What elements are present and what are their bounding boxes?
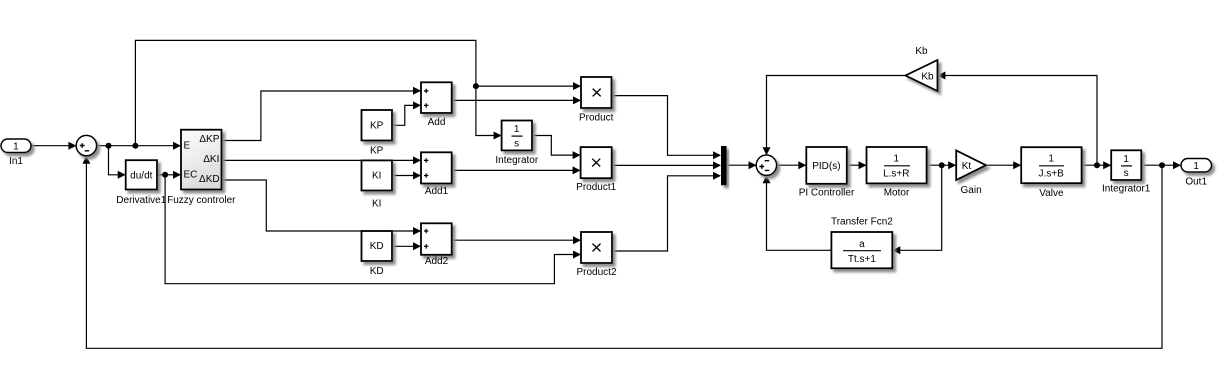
wire Sum out / error signal to E	[96, 145, 180, 147]
arrow into Product1 input2	[573, 166, 581, 174]
svg-text:KI: KI	[372, 171, 381, 182]
arrow into Fuzzy EC	[173, 171, 181, 179]
block PI Controller PID(s)	[799, 147, 855, 199]
svg-text:KD: KD	[370, 266, 384, 277]
wire KD out to Add2 second input	[392, 245, 420, 247]
svg-text:E: E	[184, 141, 191, 152]
node integrator/product branch	[473, 83, 479, 89]
svg-text:Product2: Product2	[576, 267, 616, 278]
arrow into Integrator	[494, 132, 502, 140]
svg-text:Tt.s+1: Tt.s+1	[848, 254, 877, 265]
wire Out1 feedback bottom to Sum1	[86, 157, 1162, 348]
outport Out1	[1181, 159, 1212, 188]
wire KP out to Add second input	[392, 105, 420, 125]
node after Motor	[939, 162, 945, 168]
arrow into Motor	[859, 161, 867, 169]
arrow into Integrator1	[1103, 161, 1111, 169]
wire Kb out left and down to Sum2 top	[767, 76, 906, 155]
arrow into Sum2 top	[763, 147, 771, 155]
svg-text:PID(s): PID(s)	[812, 161, 840, 172]
svg-text:1: 1	[13, 141, 19, 152]
constant block KI	[362, 160, 393, 209]
gain triangle Kt	[956, 150, 986, 195]
svg-text:KD: KD	[370, 241, 384, 252]
wire Derivative1 out to EC	[157, 174, 180, 176]
wire Mux out to Sum2	[727, 164, 756, 166]
arrow into Fuzzy E	[173, 142, 181, 150]
arrow into Product2 input2	[573, 251, 581, 259]
wire Integrator1 out to Out1	[1141, 164, 1180, 166]
arrow into Gain	[948, 161, 956, 169]
arrow into Product input2	[573, 96, 581, 104]
svg-text:Out1: Out1	[1185, 177, 1207, 188]
svg-text:1: 1	[1123, 154, 1129, 165]
block Valve 1/(J.s+B)	[1021, 147, 1081, 199]
wire error branch up over top to Integrator	[135, 40, 500, 145]
arrow into PI Controller	[798, 161, 806, 169]
constant block KD	[362, 231, 393, 277]
wire derivative branch down along bottom to Product2 second input	[165, 175, 580, 284]
svg-text:KI: KI	[372, 198, 381, 209]
arrow into Product1 input1	[573, 151, 581, 159]
svg-text:J.s+B: J.s+B	[1039, 169, 1065, 180]
svg-text:ΔKD: ΔKD	[199, 174, 220, 185]
wire In1 to Sum	[31, 145, 75, 147]
wire node to Product first input	[476, 85, 580, 87]
svg-text:EC: EC	[184, 170, 198, 181]
sum junction Sum1	[76, 135, 96, 155]
svg-text:1: 1	[1048, 154, 1054, 165]
mux bar	[721, 146, 727, 185]
gain triangle Kb (pointing left)	[906, 46, 938, 91]
arrow into Mux input1	[713, 151, 721, 159]
svg-text:Product1: Product1	[576, 182, 616, 193]
wire dKD to Add2 first input	[222, 180, 421, 231]
wire Integrator out to Product1 first input	[532, 136, 580, 156]
svg-text:KP: KP	[370, 120, 384, 131]
svg-text:Valve: Valve	[1039, 188, 1064, 199]
svg-text:du/dt: du/dt	[130, 170, 152, 181]
svg-text:Fuzzy controler: Fuzzy controler	[167, 195, 236, 206]
wire Product1 out to Mux input 2	[612, 164, 720, 166]
svg-text:In1: In1	[9, 156, 23, 167]
sum junction Sum2	[756, 155, 776, 175]
wire Sum2 out to PI Controller	[777, 164, 806, 166]
constant block KP	[362, 110, 393, 157]
wire Add out to Product second input	[452, 99, 580, 101]
arrow into Add1 input2	[413, 172, 421, 180]
arrow into Add2 input2	[413, 242, 421, 250]
svg-text:Add: Add	[428, 117, 446, 128]
svg-text:Transfer Fcn2: Transfer Fcn2	[831, 217, 893, 228]
svg-text:1: 1	[514, 124, 520, 135]
arrow into Add input1	[413, 87, 421, 95]
node after Integrator1	[1159, 162, 1165, 168]
svg-text:Motor: Motor	[884, 188, 910, 199]
svg-text:KP: KP	[370, 146, 384, 157]
svg-text:a: a	[859, 239, 865, 250]
svg-text:Integrator1: Integrator1	[1102, 184, 1151, 195]
svg-text:Add1: Add1	[425, 186, 449, 197]
wire node after Valve up to Kb gain	[939, 76, 1098, 166]
svg-text:Product: Product	[579, 113, 614, 124]
arrow into Transfer Fcn2 (pointing left)	[892, 246, 900, 254]
svg-text:s: s	[1124, 168, 1129, 179]
arrow into Product2 input1	[573, 236, 581, 244]
arrow into Product input1	[573, 82, 581, 90]
arrow into Out1	[1173, 161, 1181, 169]
arrow into Add input2	[413, 101, 421, 109]
svg-text:1: 1	[894, 154, 900, 165]
adder block Add1	[421, 152, 452, 197]
node error branch 1	[106, 143, 112, 149]
multiplier block Product1	[576, 147, 616, 193]
wire Transfer Fcn2 out to Sum2 bottom	[767, 176, 832, 250]
svg-text:PI Controller: PI Controller	[799, 188, 855, 199]
svg-text:ΔKP: ΔKP	[199, 134, 219, 145]
wire Add2 out to Product2 first input	[452, 239, 580, 241]
block Integrator 1/s	[495, 121, 538, 167]
arrow into Derivative1	[118, 171, 126, 179]
svg-text:ΔKI: ΔKI	[203, 154, 219, 165]
svg-text:L.s+R: L.s+R	[883, 169, 909, 180]
wire Product out down to Mux input 1	[612, 96, 721, 156]
wire KI out to Add1 second input	[392, 175, 420, 177]
wire node after Motor down to Transfer Fcn2	[893, 165, 941, 250]
wire Motor out to Gain	[927, 164, 956, 166]
wire Add1 out to Product1 second input	[452, 169, 580, 171]
node derivative branch	[162, 172, 168, 178]
node after Valve	[1094, 162, 1100, 168]
svg-text:Kb: Kb	[915, 46, 928, 57]
inport In1	[1, 139, 31, 167]
wire Gain out to Valve	[986, 164, 1020, 166]
block Integrator1 1/s	[1102, 150, 1151, 194]
svg-text:1: 1	[1193, 161, 1199, 172]
wire error branch down to Derivative1	[109, 146, 125, 175]
wire Valve out to Integrator1	[1082, 164, 1111, 166]
arrow into Kb (pointing left)	[937, 72, 945, 80]
svg-text:Kt: Kt	[962, 161, 972, 172]
svg-text:Kb: Kb	[921, 72, 934, 83]
arrow into Sum1 left	[68, 142, 76, 150]
multiplier block Product	[579, 77, 614, 124]
adder block Add	[421, 82, 452, 128]
svg-text:Derivative1: Derivative1	[116, 195, 166, 206]
arrow into Add2 input1	[413, 227, 421, 235]
arrow into Sum2 left	[749, 161, 757, 169]
arrow into Sum1 bottom	[82, 156, 90, 164]
node error branch 2	[132, 143, 138, 149]
arrow into Add1 input1	[413, 156, 421, 164]
block Transfer Fcn2 a/(Tt.s+1)	[831, 217, 893, 269]
block Motor 1/(L.s+R)	[867, 147, 927, 199]
adder block Add2	[421, 223, 452, 267]
wire dKP to Add first input	[222, 91, 421, 141]
block Derivative1 du/dt	[116, 160, 166, 206]
wire Product2 out up to Mux input 3	[612, 176, 720, 251]
svg-text:s: s	[514, 138, 519, 149]
arrow into Sum2 bottom	[763, 175, 771, 183]
arrow into Mux input2	[713, 161, 721, 169]
svg-text:Gain: Gain	[961, 185, 982, 196]
svg-text:Integrator: Integrator	[495, 155, 538, 166]
arrow into Mux input3	[713, 172, 721, 180]
svg-text:Add2: Add2	[425, 256, 449, 267]
arrow into Valve	[1013, 161, 1021, 169]
multiplier block Product2	[576, 232, 616, 278]
wire dKI to Add1 first input	[222, 159, 421, 161]
wire PI Controller out to Motor	[847, 164, 866, 166]
block Fuzzy controler (subsystem)	[167, 130, 236, 206]
